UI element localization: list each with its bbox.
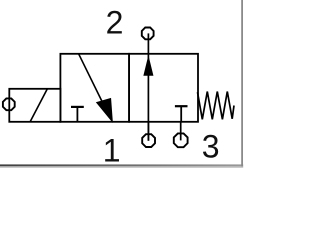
left box blocked port T: [71, 107, 84, 122]
roller-lever actuator box: [9, 89, 60, 122]
return spring: [198, 92, 235, 120]
frame right border: [241, 0, 243, 166]
port 3 stub wire: [180, 122, 182, 141]
right box up arrowhead: [144, 57, 153, 75]
roller circle: [3, 98, 15, 110]
port 1 stub wire: [147, 122, 149, 141]
port 1 connector circle: [142, 134, 155, 147]
svg-text:3: 3: [202, 129, 220, 165]
lever diagonal: [30, 89, 47, 122]
left box flow arrow 2->3 (wire): [79, 54, 105, 107]
valve body left box: [60, 54, 129, 122]
right box blocked port T: [175, 106, 188, 121]
svg-text:1: 1: [103, 132, 121, 168]
valve body right box: [129, 54, 198, 122]
left box arrowhead: [97, 99, 113, 122]
right box flow line 1->2 (wire): [147, 33, 149, 140]
port 2 connector circle: [142, 28, 154, 40]
frame bottom border: [0, 164, 243, 167]
port 3 connector circle: [174, 133, 188, 147]
svg-text:2: 2: [106, 4, 124, 40]
